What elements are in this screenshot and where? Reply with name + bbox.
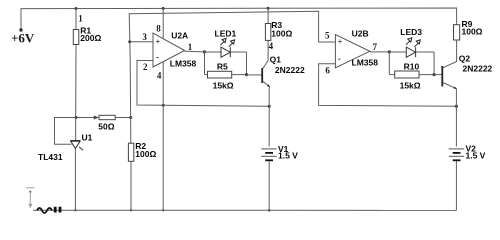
left measurement probe symbol	[26, 188, 35, 209]
LED1 diode symbol	[221, 47, 230, 57]
svg-text:1: 1	[78, 13, 83, 23]
wire: U2B pin 6 feedback loop	[319, 64, 457, 106]
resistor R1 body	[73, 30, 79, 45]
wire: LED1 right lead	[230, 51, 246, 53]
svg-text:TL431: TL431	[38, 152, 63, 162]
svg-text:7: 7	[373, 42, 378, 52]
svg-text:R5: R5	[217, 62, 228, 72]
wire: Q1 base lead	[247, 74, 263, 76]
resistor R2 body	[128, 143, 133, 161]
wire: R3 bottom lead to Q1 collector	[263, 40, 268, 68]
svg-text:LED3: LED3	[400, 27, 422, 37]
wire: TL431 reference loop	[55, 118, 77, 145]
svg-text:+: +	[156, 37, 161, 46]
wire: LED1/R5 left vertical	[204, 52, 206, 75]
wire: U2A pin 2 feedback loop	[137, 61, 269, 107]
wire: V2 bottom lead	[455, 161, 457, 210]
junction dot on rail at R3	[267, 7, 270, 10]
battery V2	[449, 149, 465, 160]
resistor R5 body	[208, 71, 232, 78]
svg-text:1.5 V: 1.5 V	[278, 150, 298, 160]
svg-text:100Ω: 100Ω	[462, 26, 483, 36]
wire: LED3 left lead	[389, 51, 406, 53]
wire: U2A pin 4 line down to ground rail	[162, 63, 164, 211]
scribble mark on ground rail	[37, 208, 52, 213]
op-amp U2A triangle	[153, 33, 185, 67]
resistor R10 body	[395, 71, 419, 78]
wire: TL431 anode to ground	[74, 148, 76, 210]
potentiometer 50 ohm body	[99, 115, 115, 119]
svg-text:4: 4	[269, 41, 274, 51]
wire: LED1/R5 right vertical	[246, 52, 248, 75]
LED1 emission arrows	[220, 38, 234, 46]
resistor R9 body	[454, 25, 460, 40]
svg-text:15kΩ: 15kΩ	[400, 80, 421, 90]
svg-text:6: 6	[325, 66, 330, 76]
svg-text:15kΩ: 15kΩ	[213, 80, 234, 90]
wire: LED1 left lead	[205, 51, 222, 53]
wire: Q2 base lead	[434, 74, 442, 76]
svg-text:+6V: +6V	[11, 31, 35, 46]
svg-text:5: 5	[325, 31, 330, 41]
wire: V1 bottom lead	[268, 161, 270, 210]
svg-text:2N2222: 2N2222	[463, 63, 493, 73]
wire: U2A pin 8 supply stub	[162, 8, 164, 38]
wire: potentiometer right lead	[115, 117, 131, 119]
junction dot ground at V1	[268, 209, 271, 212]
battery V1	[261, 149, 277, 160]
svg-text:2: 2	[143, 62, 148, 72]
node junction dot R5 right	[245, 73, 248, 76]
svg-text:-: -	[156, 52, 159, 62]
wire: LED3/R10 right vertical	[433, 52, 435, 75]
svg-text:LM358: LM358	[170, 58, 197, 68]
svg-text:3: 3	[142, 32, 147, 42]
junction dot ground at pin4 line	[162, 209, 164, 211]
svg-text:100Ω: 100Ω	[135, 149, 156, 159]
junction dot ground at R2	[130, 209, 132, 211]
potentiometer wiper arrow	[94, 116, 99, 120]
wire: R2 bottom lead	[130, 161, 132, 210]
node 1 junction dot on rail at R1	[75, 7, 78, 10]
node junction dot TL431 cathode node	[75, 116, 78, 119]
wire: reference net vertical (divider node)	[129, 11, 335, 143]
node junction dot pin3 tap	[128, 40, 131, 43]
wire: R9 bottom lead to Q2 collector	[443, 40, 457, 68]
node +6V terminal dot	[19, 28, 22, 31]
svg-text:Q2: Q2	[459, 53, 471, 63]
resistor R3 body	[265, 24, 270, 41]
wire: R5 left lead	[205, 74, 208, 76]
svg-text:R10: R10	[404, 61, 420, 71]
svg-text:1.5 V: 1.5 V	[466, 150, 486, 160]
wire: +6V top rail	[21, 8, 457, 30]
node junction dot U2A output	[203, 50, 206, 53]
wire: R10 left lead	[389, 74, 394, 76]
node junction dot R10 right	[433, 73, 436, 76]
wire: potentiometer left lead from TL431 node	[76, 117, 94, 119]
wire: R1 top lead	[75, 9, 77, 30]
svg-text:200Ω: 200Ω	[80, 33, 101, 43]
svg-text:Q1: Q1	[270, 55, 282, 65]
wire: U2B output to LED node	[370, 51, 390, 53]
LED3 emission arrows	[406, 38, 420, 47]
svg-text:LM358: LM358	[352, 57, 379, 67]
node junction dot feedback end on V2 line	[455, 105, 458, 108]
svg-text:8: 8	[156, 24, 161, 34]
wire: Q2 emitter down to V2	[455, 89, 457, 147]
node junction dot pot tap	[129, 116, 132, 119]
wire: R1 bottom lead down to TL431 node	[75, 45, 77, 141]
svg-text:100Ω: 100Ω	[271, 29, 292, 39]
node junction dot feedback end on V1 line	[268, 105, 271, 108]
wire: ground bottom rail	[33, 209, 456, 211]
svg-text:4: 4	[157, 71, 162, 81]
junction dot ground at TL431 anode	[74, 209, 76, 211]
svg-text:U2A: U2A	[171, 30, 188, 40]
svg-text:2N2222: 2N2222	[275, 65, 305, 75]
svg-text:50Ω: 50Ω	[98, 122, 114, 132]
transistor Q2	[442, 66, 457, 89]
TL431 U1 symbol	[70, 141, 83, 151]
wire: R5 right lead	[232, 74, 247, 76]
svg-text:LED1: LED1	[215, 28, 237, 38]
wire: Q1 emitter down to V1	[268, 87, 270, 147]
wire: U2A output to LED node	[185, 50, 205, 53]
wire: R3 top lead	[267, 8, 269, 23]
LED3 diode symbol	[406, 47, 415, 57]
svg-text:U1: U1	[82, 133, 93, 143]
op-amp U2B triangle	[335, 35, 369, 68]
wire: R10 right lead	[419, 74, 434, 76]
node junction dot U2B output	[388, 50, 391, 53]
junction dot on rail at U2A pin 8	[162, 7, 165, 10]
svg-text:1: 1	[188, 42, 193, 52]
svg-text:+: +	[338, 38, 343, 47]
wire: LED3 right lead	[416, 51, 435, 53]
svg-text:U2B: U2B	[352, 28, 369, 38]
svg-text:-: -	[338, 54, 341, 64]
transistor Q1	[262, 68, 270, 87]
wire: pin 3 stub	[130, 41, 153, 43]
wire: LED3/R10 left vertical	[388, 52, 390, 75]
node junction dot feedback at pin4 line	[162, 104, 165, 107]
